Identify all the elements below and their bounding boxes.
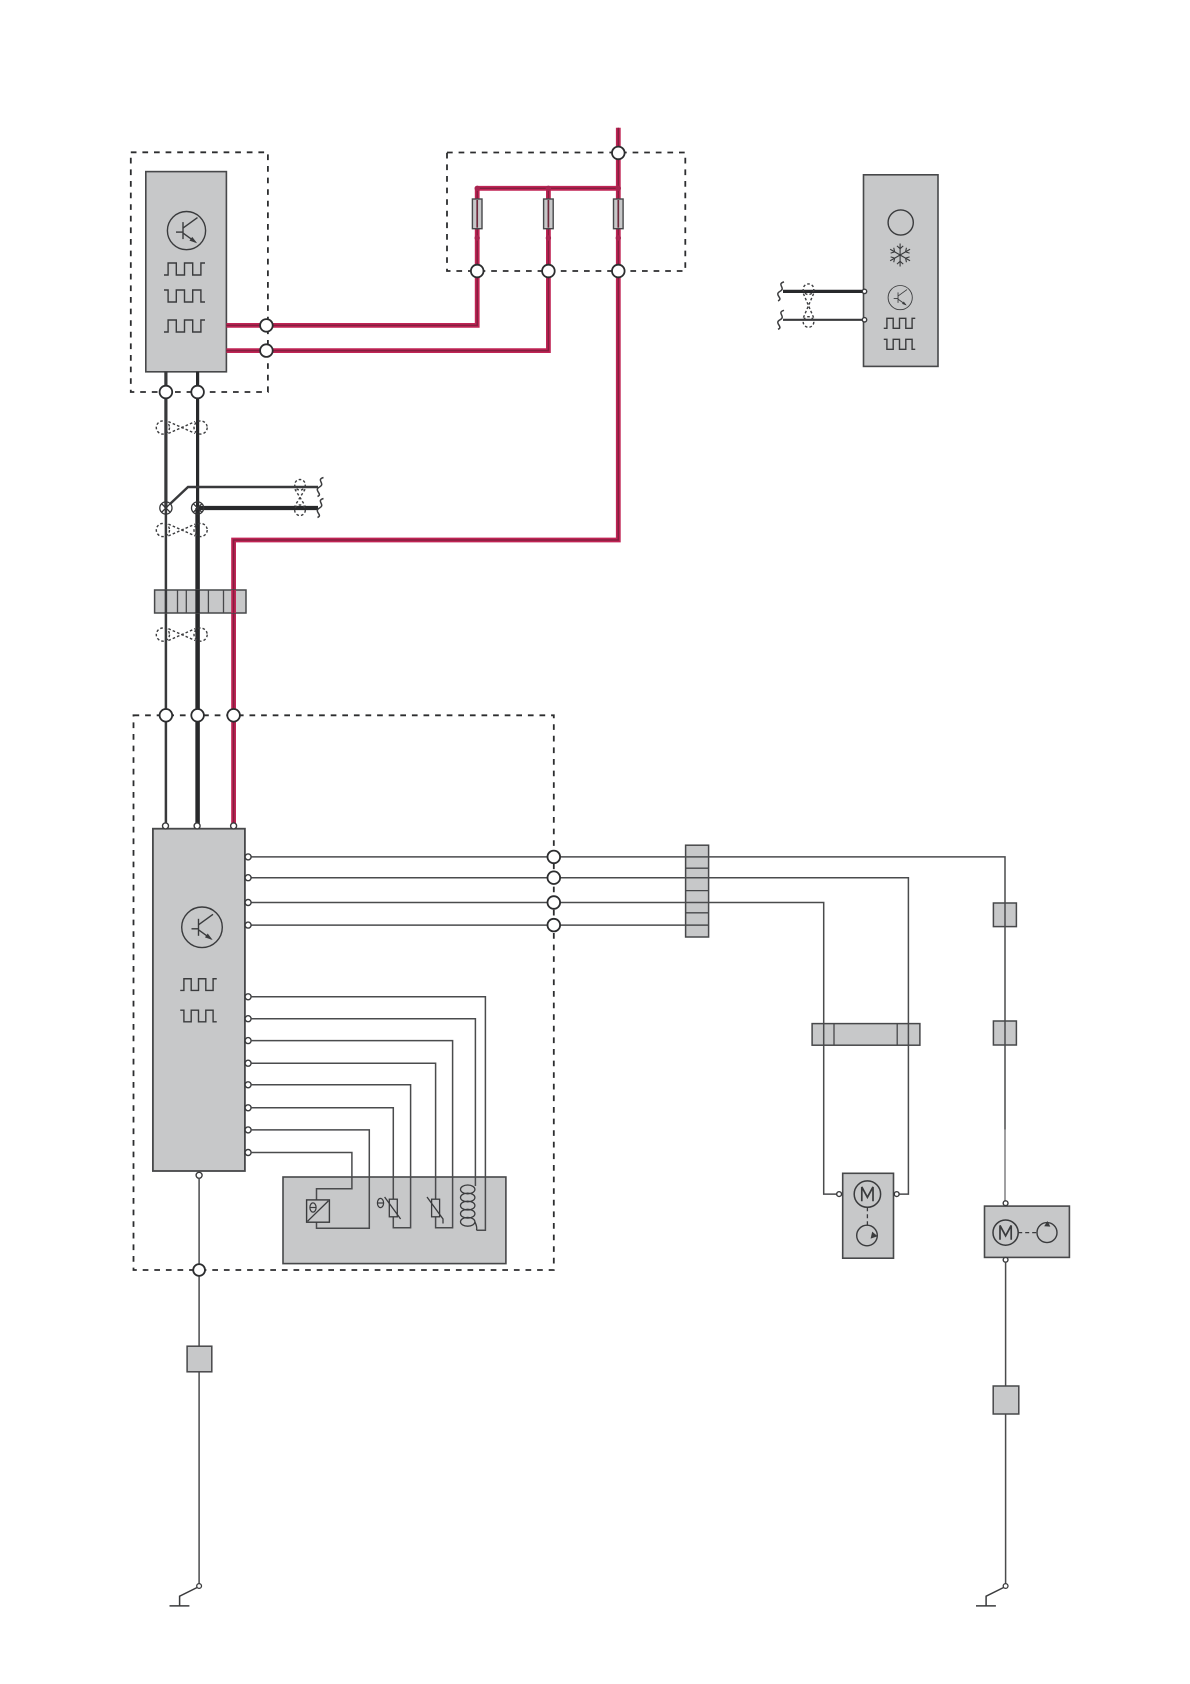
junction dot node R2 bottom: [546, 235, 551, 240]
connector ring ECU feed middle: [191, 709, 204, 722]
thin black wire splice to ECU: [165, 508, 168, 826]
ECU right pin 9: [245, 1082, 251, 1088]
ECU right pin 5: [245, 994, 251, 1000]
control module A1 (instrument) body: [146, 172, 227, 372]
ECU right pin 8: [245, 1060, 251, 1066]
square wave symbol 1 in ECU: [180, 979, 217, 991]
ground point G1: [170, 1584, 202, 1606]
resistor R3 body: [614, 199, 624, 229]
pin circle A/C unit upper: [862, 289, 866, 293]
resistor pack dashed enclosure: [447, 153, 685, 272]
connector ring A1 black wire left: [160, 386, 173, 399]
junction dot node R3 bottom: [616, 235, 621, 240]
ECU right pin 10: [245, 1105, 251, 1111]
red main feed wire through R3 down-left to ECU: [234, 128, 619, 826]
connector ring signal wire 3: [548, 896, 561, 909]
ECU right pin 3: [245, 900, 251, 906]
square wave signal symbol 2 in A1: [164, 290, 205, 302]
dashed shaft link blower: [866, 1207, 868, 1225]
wire break squiggle branch upper: [317, 478, 323, 497]
junction dot node R3 top: [616, 186, 621, 191]
ECU top pin 3 (red feed): [231, 823, 237, 829]
fan rotation symbol radiator: [1037, 1223, 1057, 1243]
sensor wire ECU to thermistor1 bottom: [251, 1085, 411, 1228]
dashed shaft link radiator fan: [1018, 1232, 1037, 1234]
sensor wire ECU to temp sensor bottom: [251, 1130, 369, 1228]
in-line connector square ECU ground: [187, 1346, 212, 1372]
square wave symbol 1 in A/C unit: [884, 318, 916, 328]
ECU right pin 1: [245, 854, 251, 860]
climate control ECU body: [153, 829, 245, 1171]
radiator fan motor unit body: [985, 1206, 1070, 1257]
square wave symbol 2 in A/C unit: [884, 339, 916, 349]
sensor wire ECU to thermistor2 bottom: [251, 1041, 453, 1228]
connector ring on A1 wire 1: [260, 319, 273, 332]
in-line connector square lower right: [993, 1021, 1016, 1045]
connector ring below R3: [612, 265, 625, 278]
twisted pair symbol on branch: [295, 480, 306, 516]
twisted pair symbol middle: [156, 523, 207, 536]
sensor wire ECU to thermistor2 top: [251, 1063, 436, 1199]
connector ring signal wire 1: [548, 851, 561, 864]
junction dot node R1 bottom: [475, 235, 480, 240]
connector ring resistor box top: [612, 147, 625, 160]
wire break squiggle branch lower: [317, 499, 323, 518]
red supply wire from A1 through resistor R2: [226, 188, 548, 350]
square wave signal symbol 1 in A1: [164, 263, 205, 275]
splice joint left: [160, 502, 172, 514]
motor symbol M blower: [854, 1181, 880, 1207]
wire break squiggle lower: [778, 310, 784, 329]
thin branch wire from splice: [171, 487, 319, 504]
in-line connector block column right: [686, 845, 709, 937]
twisted pair symbol upper: [156, 421, 207, 434]
connector ring below R1: [471, 265, 484, 278]
in-line connector block row: [155, 590, 246, 613]
junction dot node R1 top: [475, 186, 480, 191]
thick black wire splice to ECU: [195, 508, 200, 826]
thick branch wire from splice: [198, 506, 318, 510]
ECU top pin 1: [163, 823, 169, 829]
connector ring ECU feed red: [227, 709, 240, 722]
ECU right pin 2: [245, 875, 251, 881]
transistor symbol in A/C unit: [888, 286, 912, 310]
gray wire segment to right fan motor: [1004, 1130, 1006, 1201]
combined instrument unit dashed enclosure: [131, 152, 268, 392]
sensor wire ECU to temp sensor top: [251, 1153, 352, 1200]
temperature sensor square with diagonal: [307, 1200, 330, 1222]
transistor symbol in A1: [167, 212, 205, 250]
blower motor right pin: [894, 1192, 899, 1197]
signal wire ECU pin2 to blower motor right: [251, 878, 908, 1194]
transistor symbol in ECU: [182, 907, 223, 948]
connector ring A1 black wire right: [191, 386, 204, 399]
red supply wire from A1 through resistor R1: [226, 188, 477, 325]
sensor cluster body: [283, 1177, 506, 1264]
thin black wire from A1 to splice: [164, 372, 167, 508]
ECU top pin 2: [194, 823, 200, 829]
in-line connector square radiator ground: [993, 1386, 1019, 1414]
connector ring below R2: [542, 265, 555, 278]
indicator circle symbol in A/C unit: [888, 210, 913, 235]
radiator fan bottom pin: [1003, 1257, 1008, 1262]
resistor R1 body: [472, 199, 482, 229]
ECU bottom pin: [196, 1172, 202, 1178]
ECU right pin 12: [245, 1150, 251, 1156]
ECU right pin 11: [245, 1127, 251, 1133]
thermistor 1 with theta label: [389, 1199, 397, 1217]
square wave symbol 2 in ECU: [180, 1010, 217, 1022]
blower motor left pin: [837, 1192, 842, 1197]
ECU right pin 6: [245, 1016, 251, 1022]
connector ring ECU feed left: [160, 709, 173, 722]
wire overlay thin through connector row: [165, 590, 168, 613]
twisted pair symbol lower: [156, 628, 207, 641]
sensor wire ECU to coil bottom: [251, 997, 485, 1230]
wire overlay thick through connector row: [195, 590, 200, 613]
signal wire ECU pin4 to connector: [251, 924, 709, 926]
connector ring on A1 wire 2: [260, 344, 273, 357]
connector ring signal wire 4: [548, 919, 561, 932]
thick black wire from A1 to splice: [196, 372, 199, 508]
thin bus wire into A/C unit: [783, 319, 864, 321]
wire overlay red through connector row: [231, 590, 236, 613]
climate ECU dashed enclosure: [134, 715, 554, 1270]
connector ring ECU ground at enclosure: [193, 1264, 205, 1276]
snowflake symbol in A/C unit: [890, 244, 910, 267]
red bus wire across resistor pack: [477, 186, 618, 191]
radiator fan top pin: [1003, 1201, 1008, 1206]
motor symbol M radiator fan: [993, 1220, 1018, 1245]
twisted pair symbol at A/C unit: [803, 284, 814, 327]
wire break squiggle upper: [778, 282, 784, 301]
thermistor 2: [432, 1199, 440, 1217]
sensor wire ECU to coil top: [251, 1019, 475, 1186]
splice joint right: [192, 502, 204, 514]
resistor R2 body: [544, 199, 554, 229]
pin circle A/C unit lower: [862, 318, 866, 322]
ECU right pin 4: [245, 922, 251, 928]
solenoid coil: [461, 1185, 475, 1194]
junction dot node R2 top: [546, 186, 551, 191]
sensor wire ECU to thermistor1 top: [251, 1108, 393, 1199]
signal wire ECU pin3 to blower motor left: [251, 903, 837, 1195]
radiator fan ground wire: [1005, 1262, 1007, 1586]
ECU right pin 7: [245, 1038, 251, 1044]
in-line connector block above blower motor: [812, 1024, 920, 1046]
fan rotation symbol blower: [857, 1225, 878, 1246]
in-line connector square upper right: [993, 903, 1016, 927]
signal wire ECU pin1 to right fan motor: [251, 857, 1005, 1130]
A/C control unit body: [864, 175, 939, 367]
blower fan motor unit body: [843, 1173, 894, 1258]
ECU ground wire: [198, 1178, 200, 1586]
thick bus wire into A/C unit: [783, 290, 864, 293]
connector ring signal wire 2: [548, 871, 561, 884]
ground point G2: [976, 1584, 1008, 1606]
square wave signal symbol 3 in A1: [164, 320, 205, 332]
